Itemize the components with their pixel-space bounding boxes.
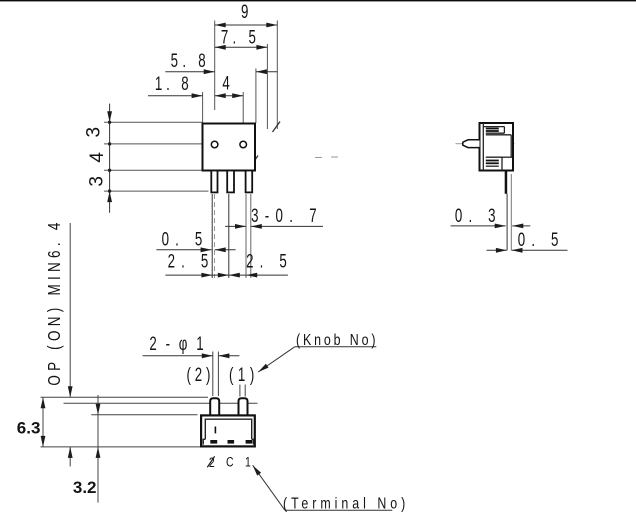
svg-text:4: 4 [87,152,108,163]
svg-text:C: C [226,454,234,470]
svg-text:(Terminal No): (Terminal No) [283,494,409,512]
svg-text:3-0. 7: 3-0. 7 [251,206,323,227]
svg-text:0. 3: 0. 3 [455,206,502,227]
svg-text:0. 5: 0. 5 [518,230,565,251]
svg-text:OP (ON) MIN6. 4: OP (ON) MIN6. 4 [45,218,64,385]
svg-text:(1): (1) [229,365,259,386]
svg-text:2-φ1: 2-φ1 [149,334,212,355]
svg-text:7. 5: 7. 5 [221,27,260,48]
svg-text:2. 5: 2. 5 [246,251,293,272]
svg-text:3: 3 [87,176,108,187]
svg-text:(2): (2) [187,365,215,386]
svg-text:5. 8: 5. 8 [171,51,210,72]
svg-text:(Knob No): (Knob No) [296,331,378,349]
svg-text:1. 8: 1. 8 [155,74,193,95]
svg-text:1: 1 [245,454,251,470]
svg-text:9: 9 [241,2,248,23]
svg-text:3.2: 3.2 [73,478,97,497]
svg-text:0. 5: 0. 5 [162,229,209,250]
svg-text:3: 3 [84,127,105,138]
svg-text:6.3: 6.3 [17,419,41,438]
svg-text:2. 5: 2. 5 [168,251,215,272]
svg-text:4: 4 [222,73,229,94]
